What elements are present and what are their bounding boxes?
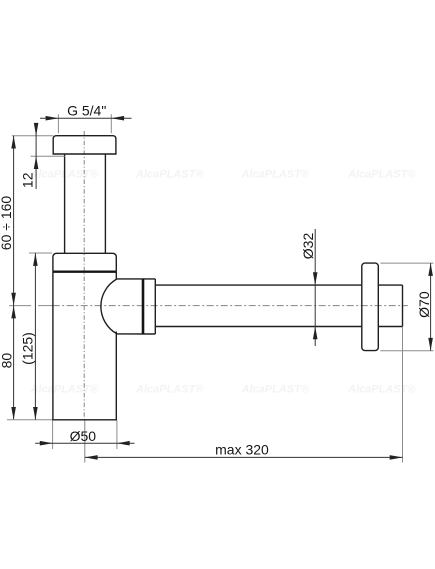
ext line left [57,114,59,133]
pipe stub beyond escutcheon [378,284,402,286]
outlet elbow bell [101,279,155,334]
arrow down [428,338,433,351]
dim line [35,124,37,190]
ext line flange top right [380,262,433,264]
vertical wall tube [64,154,66,253]
ext line body left down [52,421,54,450]
ext line right [110,114,112,133]
outlet pipe [155,284,361,286]
svg-text:80: 80 [0,353,15,369]
arrow down [11,293,16,306]
arrow left [46,116,59,121]
arrow up to pipe bottom [313,327,318,340]
arrow right to left ext [40,441,53,446]
arrow down to flange top [34,123,39,136]
svg-text:AlcaPLAST®: AlcaPLAST® [135,169,204,181]
top flange nut G5/4 [53,136,116,154]
dimension 60 / 160 [0,136,16,306]
ext line body bottom left [7,419,52,421]
svg-text:(125): (125) [20,332,36,365]
elbow joint (thick line) [142,279,145,334]
dimension G 5/4" [40,102,132,133]
svg-text:Ø32: Ø32 [300,233,316,260]
dim line [85,456,403,458]
watermark row 1 [30,169,417,181]
pipe end cap [402,285,404,326]
dimension 80 [0,306,52,420]
dimension 12 [12,123,65,189]
svg-text:AlcaPLAST®: AlcaPLAST® [30,384,99,396]
watermark row 2 [30,384,417,396]
trap body cup [52,272,54,420]
svg-text:AlcaPLAST®: AlcaPLAST® [241,169,310,181]
svg-text:12: 12 [19,172,35,188]
arrow up [428,263,433,276]
dimension max 320 [85,327,403,463]
ext line flange bottom right [380,350,433,352]
trap body nut joint (thick line) [53,271,116,273]
extension line left of body at pipe axis (60/160 + 80 datum) [9,305,31,307]
svg-text:Ø70: Ø70 [416,291,432,318]
svg-text:AlcaPLAST®: AlcaPLAST® [347,169,416,181]
svg-text:60 ÷ 160: 60 ÷ 160 [0,196,14,251]
svg-text:G 5/4": G 5/4" [67,102,106,118]
dim line [13,306,15,420]
centerline vertical extension below body (max 320 datum) [84,420,86,463]
centerline horizontal (outlet pipe axis) [53,305,408,307]
arrow up to flange bottom [34,156,39,169]
svg-text:AlcaPLAST®: AlcaPLAST® [135,384,204,396]
ext line body right down [116,421,118,450]
dim line [40,117,58,119]
wall escutcheon flange O70 [362,263,379,351]
ext line flange top left [12,135,53,137]
arrow down [11,407,16,420]
ext line flange bottom [31,155,65,157]
dimension O70 [380,263,433,351]
arrow right [111,116,124,121]
arrow down [33,407,38,420]
arrow up [11,136,16,149]
dim line [35,442,134,444]
centerline vertical (body axis) [83,131,85,420]
svg-text:Ø50: Ø50 [70,428,97,444]
svg-text:max 320: max 320 [215,441,269,457]
dimension (125) [20,253,52,420]
arrow up [11,306,16,319]
svg-text:AlcaPLAST®: AlcaPLAST® [347,384,416,396]
dimension O32 [300,229,318,346]
arrow right [390,455,403,460]
dimension O50 [35,421,134,450]
dim line [13,136,15,306]
dim line [430,263,432,351]
trap body bottom edge [52,419,117,421]
arrow left to right ext [117,441,130,446]
svg-text:AlcaPLAST®: AlcaPLAST® [241,384,310,396]
dim line [34,253,36,420]
ext line body top left [29,252,52,254]
ext line pipe end down [402,327,404,463]
arrow left [85,455,98,460]
trap body top nut [53,253,116,271]
arrow up [33,253,38,266]
dim line [314,229,316,346]
elbow nut right edge [154,279,156,334]
arrow down to pipe top [313,272,318,285]
